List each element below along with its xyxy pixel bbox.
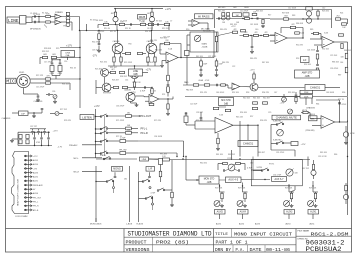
svg-text:R46 47K: R46 47K (250, 58, 258, 60)
svg-text:C28 22P: C28 22P (196, 112, 204, 114)
svg-text:R84 6K8: R84 6K8 (296, 23, 303, 25)
svg-text:PFL-L: PFL-L (33, 201, 38, 203)
svg-text:PFL-SW: PFL-SW (119, 150, 126, 152)
svg-text:R47 10K: R47 10K (262, 62, 270, 64)
svg-text:R71 470R: R71 470R (116, 120, 125, 122)
svg-text:+17V: +17V (250, 69, 256, 71)
svg-text:MELB: MELB (310, 114, 316, 116)
svg-text:LINE: LINE (8, 19, 19, 24)
svg-text:S-MUTE1: S-MUTE1 (273, 121, 281, 123)
svg-text:4K7: 4K7 (111, 13, 114, 15)
svg-text:PERS-AUX: PERS-AUX (33, 184, 43, 187)
svg-text:RV3 10K: RV3 10K (238, 188, 246, 190)
svg-text:MPD4N6035: MPD4N6035 (30, 29, 41, 31)
svg-text:TR3: TR3 (128, 44, 131, 46)
svg-text:DR2B: DR2B (139, 16, 146, 19)
svg-text:R22 470R: R22 470R (124, 62, 133, 64)
svg-text:L-BUS: L-BUS (126, 223, 133, 225)
svg-text:R10 1K: R10 1K (104, 28, 111, 30)
svg-text:R57: R57 (250, 116, 253, 118)
svg-text:4.7UF: 4.7UF (140, 91, 146, 93)
svg-text:CHASSIS: CHASSIS (2, 117, 11, 120)
svg-text:C31 47UF: C31 47UF (276, 152, 285, 154)
svg-text:MIC-L: MIC-L (74, 158, 79, 160)
svg-text:R45 22K: R45 22K (236, 117, 244, 119)
svg-text:R29: R29 (56, 48, 59, 50)
svg-text:C22: C22 (232, 66, 235, 68)
svg-text:MONO: MONO (113, 168, 121, 171)
svg-text:47UF: 47UF (36, 142, 40, 144)
svg-text:PFL-OUT: PFL-OUT (33, 197, 42, 199)
svg-text:XLR1: XLR1 (19, 72, 25, 74)
svg-text:C8 22P: C8 22P (147, 28, 154, 30)
svg-text:R19 6K8: R19 6K8 (282, 12, 289, 14)
svg-text:+17V: +17V (33, 156, 38, 158)
svg-text:R80 47K: R80 47K (220, 29, 228, 31)
svg-text:R74: R74 (162, 94, 165, 96)
svg-text:+17V: +17V (301, 144, 307, 146)
svg-text:AUX5: AUX5 (216, 222, 221, 225)
svg-text:C40: C40 (255, 29, 258, 31)
svg-text:+17V: +17V (146, 69, 152, 72)
svg-text:R31 1K: R31 1K (70, 68, 77, 70)
svg-text:R15 47K: R15 47K (218, 10, 226, 12)
svg-text:GAIN: GAIN (202, 42, 208, 45)
svg-text:R52 10K: R52 10K (322, 49, 330, 51)
svg-text:R32 470R: R32 470R (92, 42, 101, 44)
svg-text:POT1: POT1 (228, 158, 233, 160)
svg-text:CON1 15WAY: CON1 15WAY (15, 215, 28, 218)
svg-text:C7: C7 (170, 20, 172, 22)
svg-text:4.7UF: 4.7UF (120, 138, 126, 140)
svg-text:C32 4.7UF: C32 4.7UF (318, 156, 328, 158)
svg-text:C9 47UF: C9 47UF (97, 31, 105, 33)
svg-text:HEAVY DUTY CONNECTOR: HEAVY DUTY CONNECTOR (17, 179, 20, 206)
svg-text:C10 47UF: C10 47UF (240, 10, 249, 12)
svg-text:100N: 100N (244, 7, 249, 9)
svg-text:C33 47UF: C33 47UF (116, 106, 125, 108)
svg-text:R2 10K: R2 10K (55, 12, 62, 14)
svg-text:C15 47UF: C15 47UF (36, 86, 45, 88)
svg-text:220K: 220K (304, 96, 309, 98)
svg-text:R65 10K: R65 10K (320, 152, 328, 154)
svg-text:4.7UF: 4.7UF (205, 80, 210, 82)
svg-text:PAD: PAD (184, 81, 189, 84)
svg-text:1M: 1M (236, 15, 239, 17)
svg-text:R67 2K2: R67 2K2 (302, 168, 309, 170)
svg-text:+17V: +17V (165, 7, 171, 11)
svg-text:CHANNEL MUTE: CHANNEL MUTE (276, 115, 297, 119)
svg-text:1M2: 1M2 (233, 7, 237, 9)
svg-text:-17V: -17V (92, 55, 97, 58)
svg-text:R61 10K: R61 10K (216, 154, 224, 156)
svg-text:R41 10K: R41 10K (253, 98, 261, 100)
svg-text:AUX 6-7: AUX 6-7 (274, 178, 284, 181)
svg-text:PRE-AUX: PRE-AUX (69, 144, 78, 147)
svg-text:R40 10K: R40 10K (243, 98, 251, 100)
svg-text:CA3046: CA3046 (147, 40, 154, 43)
svg-text:R26 4K7: R26 4K7 (112, 80, 119, 82)
svg-text:PRO2 (8S): PRO2 (8S) (156, 240, 189, 245)
svg-text:R83: R83 (292, 15, 295, 17)
svg-text:C25 1UF: C25 1UF (330, 55, 338, 57)
svg-text:R94 22K: R94 22K (262, 92, 270, 94)
svg-text:R64: R64 (316, 104, 319, 106)
svg-text:HI PASS: HI PASS (198, 14, 210, 18)
svg-text:C41 100N: C41 100N (250, 24, 259, 26)
svg-text:P.A.: P.A. (236, 248, 245, 253)
svg-text:S-PRE: S-PRE (257, 167, 263, 169)
svg-text:R56 10K: R56 10K (240, 112, 248, 114)
svg-text:AUX4: AUX4 (33, 163, 38, 166)
svg-text:R60 2K2: R60 2K2 (200, 163, 207, 165)
svg-text:MONO-BUS: MONO-BUS (90, 223, 102, 225)
svg-text:AUX3: AUX3 (286, 211, 293, 214)
svg-text:C44: C44 (340, 62, 343, 64)
svg-text:R53 10K: R53 10K (304, 64, 312, 66)
svg-text:CA3046: CA3046 (124, 89, 131, 92)
svg-text:C26 47UF: C26 47UF (330, 68, 339, 70)
svg-text:-20dB: -20dB (198, 80, 204, 82)
svg-text:S-MUTE2: S-MUTE2 (273, 140, 281, 142)
svg-text:AUX3: AUX3 (286, 222, 291, 225)
svg-text:C37 22P: C37 22P (30, 126, 38, 128)
svg-text:MIC-R: MIC-R (74, 172, 80, 174)
svg-text:C46 10UF: C46 10UF (216, 92, 225, 94)
svg-text:MIC: MIC (6, 80, 15, 84)
svg-text:PAD SW: PAD SW (186, 89, 193, 92)
svg-text:R92 10K: R92 10K (232, 92, 240, 94)
svg-text:AUX6: AUX6 (33, 192, 38, 195)
svg-text:-17V: -17V (58, 147, 63, 149)
svg-text:R87: R87 (338, 75, 341, 77)
svg-text:DATE: DATE (250, 248, 262, 253)
svg-text:4.7UF: 4.7UF (350, 133, 355, 135)
svg-text:R75 22K: R75 22K (154, 120, 162, 122)
svg-text:4K7: 4K7 (111, 69, 114, 71)
svg-text:+17V: +17V (231, 26, 236, 28)
svg-text:R6C1-2.DSM: R6C1-2.DSM (311, 231, 349, 237)
svg-text:00-11-86: 00-11-86 (266, 248, 290, 253)
svg-text:-50dB: -50dB (202, 46, 208, 48)
svg-text:R-BUS: R-BUS (137, 223, 144, 225)
svg-text:C34 100N: C34 100N (154, 136, 163, 138)
svg-text:DRN BY: DRN BY (215, 248, 231, 253)
svg-text:R11 1K: R11 1K (125, 28, 132, 30)
svg-text:4.7UF: 4.7UF (151, 193, 156, 195)
svg-text:POT1: POT1 (269, 164, 275, 166)
svg-text:R23 2K2: R23 2K2 (322, 10, 329, 12)
svg-text:CH6031: CH6031 (243, 142, 254, 146)
svg-text:+17V: +17V (53, 130, 59, 132)
svg-text:R17: R17 (268, 14, 271, 16)
svg-text:R12 1K: R12 1K (110, 31, 117, 33)
svg-text:R33 2K2: R33 2K2 (42, 51, 49, 53)
svg-text:R96: R96 (342, 92, 345, 94)
svg-text:PFL-L: PFL-L (141, 128, 148, 131)
svg-text:AUX4: AUX4 (240, 211, 247, 214)
svg-text:LF: LF (303, 58, 307, 62)
svg-text:4.7UF: 4.7UF (247, 168, 253, 170)
svg-text:R78 47K: R78 47K (64, 120, 72, 122)
svg-text:R42 4K7: R42 4K7 (263, 98, 270, 100)
svg-text:6K8: 6K8 (43, 54, 46, 56)
svg-text:MID 4K5: MID 4K5 (218, 7, 225, 9)
svg-text:TITLE: TITLE (215, 233, 228, 237)
svg-text:C14: C14 (125, 80, 128, 82)
svg-text:R13 2K2: R13 2K2 (162, 28, 169, 30)
svg-text:R44 22K: R44 22K (222, 62, 230, 64)
svg-text:R66: R66 (334, 154, 337, 156)
svg-text:RV1 10K: RV1 10K (203, 31, 211, 33)
svg-text:C45 22P: C45 22P (163, 37, 171, 39)
svg-text:MON STD: MON STD (204, 178, 215, 180)
svg-text:PART 1 OF 1: PART 1 OF 1 (216, 240, 248, 245)
svg-text:R77 2K2: R77 2K2 (60, 109, 67, 111)
svg-text:L-R: L-R (148, 168, 152, 171)
svg-text:R24: R24 (340, 12, 343, 14)
svg-text:10UF: 10UF (219, 64, 223, 66)
svg-text:C1 47UF: C1 47UF (30, 13, 38, 15)
svg-text:R16 10K: R16 10K (256, 10, 264, 12)
svg-text:+17V: +17V (280, 102, 286, 104)
svg-text:R21 2K2: R21 2K2 (100, 62, 107, 64)
svg-text:LINK: LINK (142, 159, 147, 161)
svg-text:R35: R35 (160, 44, 163, 46)
svg-text:-0dB: -0dB (304, 75, 309, 78)
svg-text:6K8: 6K8 (284, 15, 287, 17)
svg-text:C16: C16 (64, 61, 67, 63)
svg-text:R70 470R: R70 470R (103, 93, 112, 95)
svg-text:LISTEN: LISTEN (82, 115, 91, 119)
svg-text:C48 100N: C48 100N (326, 92, 335, 94)
svg-text:R91 47K: R91 47K (200, 92, 208, 94)
svg-text:R27 47R: R27 47R (36, 75, 44, 77)
svg-text:+17V: +17V (66, 44, 72, 48)
svg-text:R95 10K: R95 10K (288, 92, 296, 94)
svg-text:R63 4K7: R63 4K7 (258, 152, 265, 154)
svg-text:R14 1K: R14 1K (145, 31, 152, 33)
svg-text:AUX1: AUX1 (33, 180, 38, 183)
svg-text:0dB: 0dB (224, 103, 229, 105)
svg-text:R36 10K: R36 10K (62, 84, 70, 86)
svg-text:VERSIONS: VERSIONS (126, 248, 150, 253)
svg-text:PFL-OUT: PFL-OUT (141, 115, 152, 118)
svg-text:220K: 220K (304, 92, 309, 94)
svg-text:STUDIOMASTER DIAMOND LTD: STUDIOMASTER DIAMOND LTD (128, 231, 212, 238)
svg-text:AUX1: AUX1 (310, 222, 315, 225)
svg-text:R86 10K: R86 10K (332, 62, 340, 64)
svg-text:CHASSIS: CHASSIS (34, 100, 43, 103)
svg-text:C24 100N: C24 100N (307, 50, 316, 52)
svg-text:C20 1UF: C20 1UF (190, 104, 198, 106)
svg-text:(PRE-SW): (PRE-SW) (306, 130, 315, 132)
svg-text:R50 47K: R50 47K (296, 45, 304, 47)
svg-text:MUTE: MUTE (302, 110, 308, 112)
svg-text:R28 6K8: R28 6K8 (44, 48, 51, 50)
svg-text:C29: C29 (268, 112, 271, 114)
svg-text:2K2: 2K2 (336, 15, 339, 17)
svg-text:PRODUCT: PRODUCT (126, 240, 147, 245)
svg-text:AUX3: AUX3 (33, 171, 38, 174)
svg-text:R85: R85 (310, 29, 313, 31)
svg-text:4K7: 4K7 (147, 13, 150, 15)
svg-text:10UF: 10UF (203, 64, 207, 66)
svg-text:2K2: 2K2 (127, 113, 130, 115)
svg-text:PCBUSUA2: PCBUSUA2 (306, 246, 342, 253)
svg-text:2K2: 2K2 (124, 178, 127, 180)
svg-text:ATL-B: ATL-B (33, 209, 39, 212)
svg-text:TR1: TR1 (63, 26, 66, 28)
svg-text:LINE: LINE (133, 71, 139, 73)
svg-text:LINK: LINK (65, 52, 70, 54)
svg-text:MIC STD: MIC STD (221, 100, 231, 102)
svg-text:CA3046: CA3046 (113, 40, 120, 43)
svg-text:R38 2K2: R38 2K2 (120, 76, 127, 78)
svg-text:-0dB: -0dB (207, 182, 212, 184)
svg-text:AUX3: AUX3 (255, 222, 260, 225)
svg-text:CH6031: CH6031 (310, 86, 321, 90)
svg-text:S-BUS: S-BUS (100, 155, 107, 157)
svg-text:PFL-R: PFL-R (141, 132, 148, 135)
svg-text:AUX2: AUX2 (33, 176, 38, 179)
svg-text:FILE NAME: FILE NAME (298, 229, 310, 232)
svg-text:MONO INPUT CIRCUIT: MONO INPUT CIRCUIT (234, 231, 292, 237)
svg-text:+17V: +17V (94, 105, 100, 108)
svg-text:6K8: 6K8 (52, 54, 55, 56)
svg-text:0dB: 0dB (133, 74, 138, 76)
svg-text:R93: R93 (246, 92, 249, 94)
svg-text:AUX5: AUX5 (33, 159, 38, 162)
svg-text:AUX4: AUX4 (239, 222, 244, 225)
svg-text:AUX5: AUX5 (217, 211, 224, 214)
svg-text:AUX1: AUX1 (310, 211, 317, 214)
svg-text:C47: C47 (274, 92, 277, 94)
svg-text:R9 10K: R9 10K (156, 20, 163, 22)
svg-text:AUX 4-5: AUX 4-5 (228, 178, 238, 182)
svg-text:CHASSIS: CHASSIS (306, 107, 315, 110)
svg-text:C36: C36 (52, 91, 55, 93)
svg-text:PFL-R: PFL-R (33, 206, 39, 208)
svg-text:R4 100K: R4 100K (96, 20, 104, 22)
svg-text:R58 47K: R58 47K (260, 120, 268, 122)
svg-text:RV2 10K: RV2 10K (215, 188, 223, 190)
